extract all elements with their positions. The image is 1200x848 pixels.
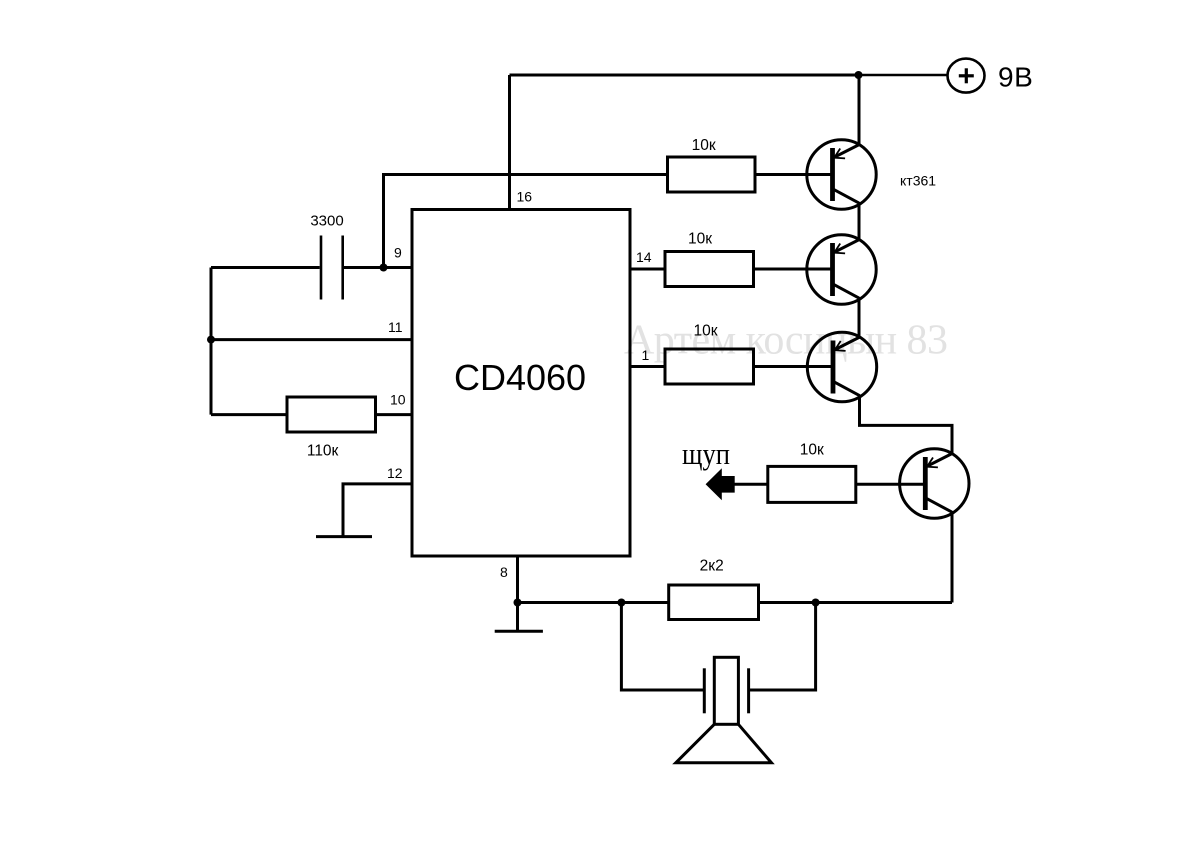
wire: left rail vertical: [210, 268, 213, 415]
probe arrow: [706, 468, 735, 500]
resistor R5 10k (probe): [768, 466, 856, 502]
capacitor C1: [320, 236, 323, 300]
wire: oscillator node to R1 (y=174.5 run): [384, 175, 668, 268]
svg-text:2к2: 2к2: [700, 558, 724, 575]
svg-text:CD4060: CD4060: [454, 357, 586, 398]
wire: speaker right drop: [750, 603, 816, 691]
wire: bottom run pin8 to R6: [518, 601, 669, 604]
resistor R6 2к2: [669, 585, 759, 620]
svg-text:10к: 10к: [688, 231, 712, 248]
transistor Q4: [900, 449, 969, 518]
wire: Q2 collector to Q3 emitter: [858, 297, 861, 338]
wire: R3 to Q2 base: [754, 268, 834, 271]
wire: pin 14 to R3: [630, 268, 665, 271]
wire: +9V top rail: [510, 74, 860, 77]
wire: pin 1 to R4: [630, 365, 665, 368]
wire: rail to Q1 emitter: [858, 75, 861, 146]
svg-text:1: 1: [642, 347, 650, 363]
wire: R6 to Q4 collector: [759, 601, 953, 604]
wire: C1 left to left rail: [211, 266, 320, 269]
junction: pin 8 node: [514, 599, 522, 607]
svg-text:10к: 10к: [692, 137, 716, 154]
battery terminal +9V: [948, 59, 985, 93]
svg-text:14: 14: [636, 249, 652, 265]
svg-text:9: 9: [394, 245, 402, 261]
svg-text:Артем косицын 83: Артем косицын 83: [624, 318, 948, 364]
IC U1 CD4060 body: [412, 210, 630, 557]
speaker LS1: [703, 668, 706, 713]
wire: pin 8 down: [516, 556, 519, 603]
svg-text:3300: 3300: [310, 213, 343, 230]
svg-text:10: 10: [390, 392, 406, 408]
svg-text:10к: 10к: [800, 442, 824, 459]
resistor R2 110к: [287, 397, 376, 432]
wire: R2 to pin 10: [376, 413, 413, 416]
resistor R1 10k (row 1): [668, 157, 756, 192]
wire: R1 to Q1 base: [755, 173, 833, 176]
wire: pin 12 to ground: [343, 484, 412, 537]
svg-text:кт361: кт361: [900, 173, 936, 189]
wire: Q4 collector down: [951, 511, 954, 603]
transistor Q1 кт361: [807, 140, 876, 209]
wire: left rail to R2 110k: [211, 413, 287, 416]
resistor R4 10k (row 3): [665, 349, 754, 384]
wire: R4 to Q3 base: [754, 365, 834, 368]
wire: pin 16 to rail: [508, 75, 511, 210]
junction: speaker right node: [812, 599, 820, 607]
svg-text:9В: 9В: [998, 62, 1033, 93]
wire: rail to supply terminal: [859, 74, 948, 77]
resistor R3 10k (row 2): [665, 252, 754, 287]
ground G1: [316, 535, 372, 538]
wire: Q3 collector to Q4 emitter: [860, 395, 953, 455]
svg-text:12: 12: [387, 465, 403, 481]
wire: probe to R5: [734, 483, 768, 486]
svg-text:щуп: щуп: [682, 436, 730, 471]
svg-text:110к: 110к: [307, 443, 339, 460]
junction: pin 9 node: [380, 264, 388, 272]
ground G2: [516, 603, 519, 632]
svg-text:10к: 10к: [693, 323, 717, 340]
wire: speaker left drop: [621, 603, 703, 691]
svg-text:8: 8: [500, 564, 508, 580]
svg-text:16: 16: [517, 189, 533, 205]
junction: pin 11 node: [207, 336, 215, 344]
transistor Q3: [807, 332, 876, 401]
junction: speaker left node: [617, 599, 625, 607]
wire: pin 11: [211, 338, 412, 341]
transistor Q2: [807, 235, 876, 304]
wire: Q1 collector to Q2 emitter: [858, 202, 861, 241]
wire: R5 to Q4 base: [856, 483, 926, 486]
wire: pin 9 to C1: [344, 266, 412, 269]
junction: rail / Q1 emitter: [855, 71, 863, 79]
svg-text:11: 11: [388, 319, 403, 335]
